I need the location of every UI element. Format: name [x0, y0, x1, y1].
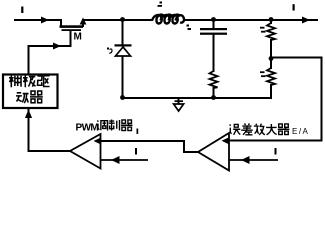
svg-text:M: M: [74, 32, 82, 43]
wire feedback vertical right: [321, 58, 323, 141]
node rail cap junction: [211, 95, 216, 100]
wire pwm output: [29, 109, 71, 151]
transistor M gate bar: [62, 29, 82, 31]
wire inductor to output: [184, 19, 317, 21]
arrow pwm top input: [94, 138, 101, 145]
resistor R (load) zigzag: [210, 71, 218, 88]
transistor M source drop: [60, 19, 62, 26]
wire gate lead: [70, 31, 72, 47]
arrow error amp top input: [222, 138, 229, 145]
label ramp: [135, 148, 137, 155]
arrow into gate driver: [25, 110, 32, 119]
resistor R2 label: [260, 71, 266, 77]
node divider mid junction: [269, 56, 274, 61]
capacitor C plate top: [200, 28, 227, 30]
arrow gate drive: [53, 43, 61, 50]
diode D cathode bar: [115, 44, 132, 46]
diode D label: [107, 48, 112, 54]
wire mid node to R2: [270, 59, 272, 69]
node divider top junction: [269, 17, 274, 22]
wire bottom rail: [123, 97, 272, 99]
wire vref input: [229, 159, 278, 161]
inductor L label: [158, 2, 163, 7]
wire input rail: [15, 19, 61, 21]
wire pwm ramp input: [101, 159, 149, 161]
error amp label 误差放大器 E/A: [230, 124, 310, 137]
wire feedback horizontal top: [271, 57, 322, 59]
wire switch-node rail: [83, 19, 152, 21]
wire divider top: [270, 20, 272, 23]
transistor M drain rise with arrow: [82, 20, 84, 27]
error amp triangle: [198, 133, 229, 171]
node switch-diode junction: [120, 17, 125, 22]
wire cap to resistor: [213, 35, 215, 72]
wire gate drive horizontal: [29, 45, 71, 47]
gate driver block: [3, 75, 58, 109]
resistor R1 zigzag: [267, 23, 275, 40]
node cap junction: [211, 17, 216, 22]
wire R2 to rail: [270, 85, 272, 98]
label Vo: [293, 4, 295, 10]
gate driver text line2 动器: [16, 91, 43, 103]
wire error amp output step: [100, 141, 198, 152]
svg-text:PWM: PWM: [76, 123, 99, 134]
wire cap branch top: [213, 20, 215, 29]
wire feedback into error amp: [229, 140, 322, 142]
label vref: [275, 148, 277, 155]
arrow vref: [241, 156, 250, 164]
arrow input: [41, 17, 49, 24]
diode D triangle: [116, 47, 131, 56]
inductor L: [152, 15, 184, 24]
node rail diode junction: [120, 95, 125, 100]
label Vi: [21, 7, 23, 14]
arrow output: [302, 17, 310, 24]
pwm label PWM调制器: [76, 120, 139, 135]
capacitor C plate bottom: [200, 33, 227, 35]
resistor R2 zigzag: [267, 68, 275, 85]
resistor R1 label: [260, 27, 266, 33]
wire diode branch top: [122, 20, 124, 45]
wire R1 to mid node: [270, 40, 272, 59]
arrow pwm ramp: [111, 156, 120, 164]
wire diode branch bottom: [122, 57, 124, 99]
transistor M channel bar: [60, 25, 84, 28]
svg-text:E/A: E/A: [292, 127, 309, 136]
wire resistor to rail: [213, 88, 215, 98]
ground: [174, 98, 184, 111]
capacitor C label: [187, 25, 192, 31]
pwm comparator triangle: [70, 134, 101, 169]
wire gate drive vertical: [28, 46, 30, 74]
gate driver text line1 栅极驱: [9, 75, 50, 88]
